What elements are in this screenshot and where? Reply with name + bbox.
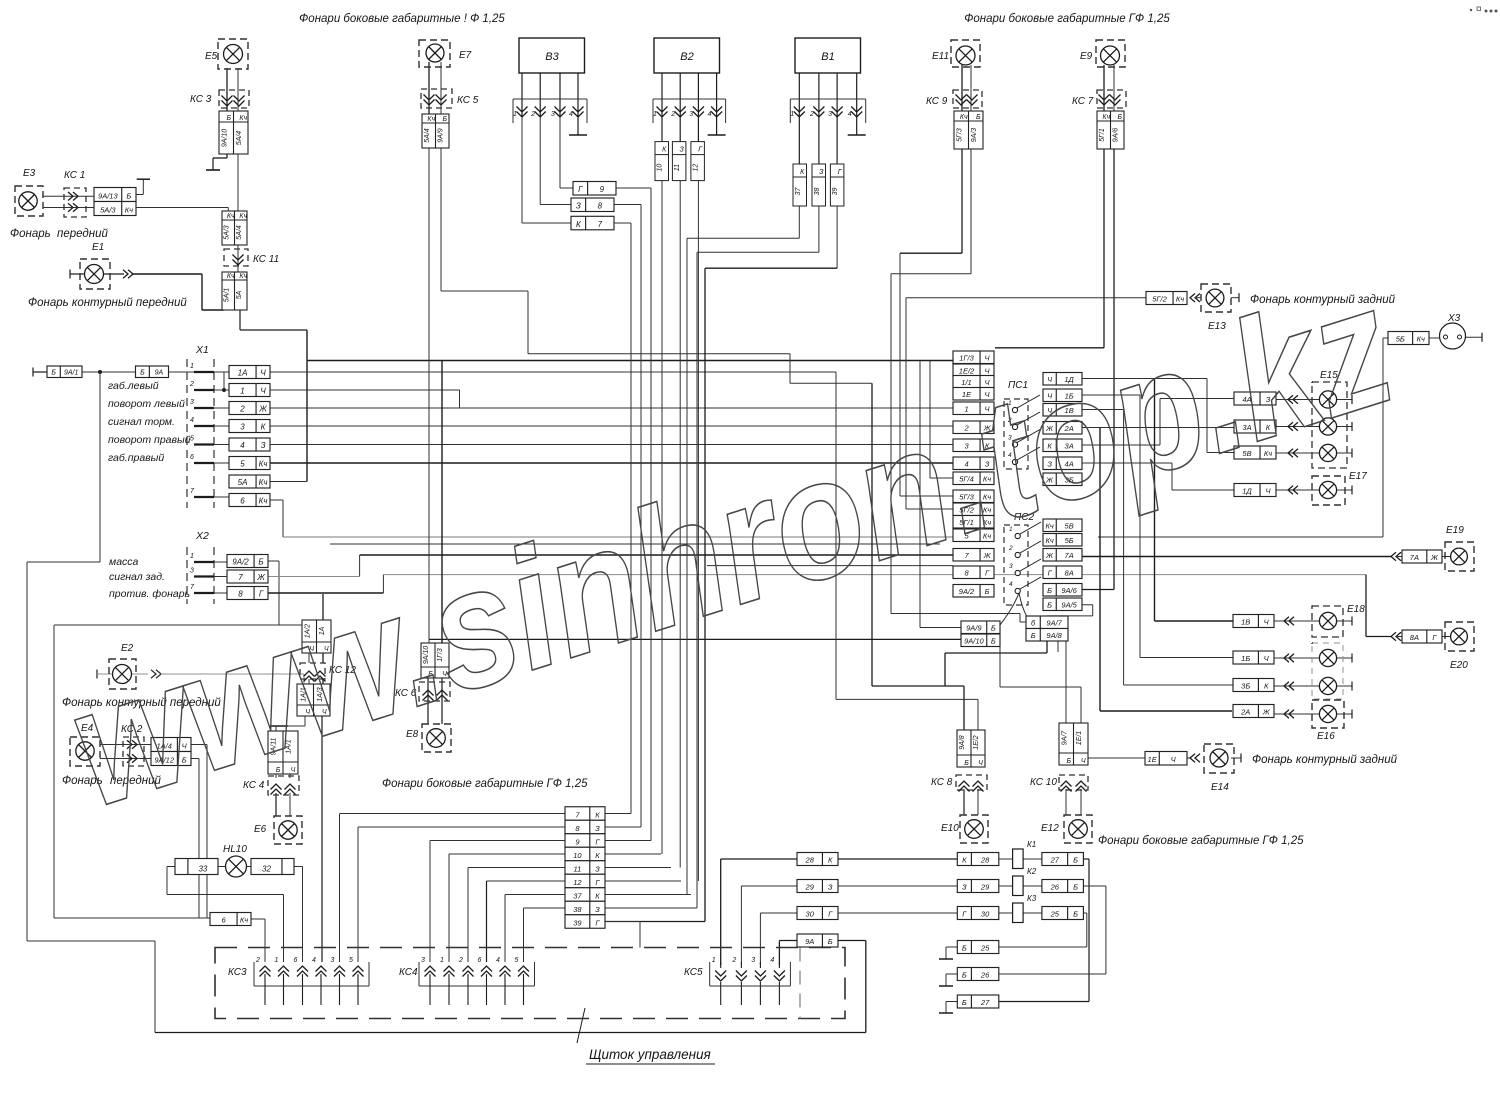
svg-text:9А/13: 9А/13 [98,192,118,201]
vlabel З-38 [812,164,826,206]
vlabel Г-12 [691,142,705,181]
svg-text:1Е/1: 1Е/1 [1076,731,1083,746]
svg-text:4: 4 [708,111,712,118]
connector KC7 [1097,90,1126,108]
svg-text:Ж: Ж [1430,553,1439,562]
svg-text:Б: Б [962,971,967,980]
svg-text:Б: Б [226,115,231,122]
wire: vertical 920 to 9A/9 box [919,361,921,628]
lamp HL10 (no box) [226,856,247,877]
label 6-Кч [210,913,251,926]
label PS-left 1Е/2-Ч [953,364,994,377]
lamp E19 [1445,542,1474,571]
svg-text:5А/3: 5А/3 [223,225,230,240]
switch block PS1 [1004,395,1040,469]
label PS-left 2-Ж [953,421,994,434]
svg-text:Б: Б [258,558,263,567]
svg-text:4: 4 [770,957,774,964]
lamp E11 [951,40,980,67]
block В1 [795,38,861,73]
svg-text:Б: Б [442,116,447,123]
svg-text:поворот правый: поворот правый [108,434,191,446]
svg-text:К2: К2 [1027,867,1037,876]
wire: X1 row 5A to vertical 307 [270,481,307,483]
svg-text:Ж: Ж [1045,551,1054,560]
svg-text:сигнал торм.: сигнал торм. [108,416,175,428]
X2 pin 1 stub [194,561,214,563]
svg-text:Кч: Кч [227,273,235,280]
svg-text:2: 2 [189,381,194,388]
label PS-left 7-Ж [953,549,994,562]
svg-text:7А: 7А [1065,551,1074,560]
svg-text:10: 10 [573,851,582,860]
label PS-right Ж-7А [1043,549,1082,562]
wire: E3 row1 to ground up [136,194,143,196]
svg-text:11: 11 [674,164,681,171]
svg-text:Щиток управления: Щиток управления [589,1047,711,1062]
svg-text:39: 39 [573,918,582,927]
svg-text:поворот левый: поворот левый [108,398,185,410]
label 25-Б [1042,907,1084,920]
svg-text:1: 1 [240,387,244,396]
label PS-right Кч-5В [1043,519,1082,532]
svg-text:З: З [680,147,685,154]
X1 pin 3 stub [194,407,214,409]
svg-text:Б: Б [1073,910,1078,919]
corner marks top right [1477,7,1481,11]
lamp right stub E18/E16 [1337,713,1352,715]
svg-text:1: 1 [190,363,194,370]
pair box E7/KC5 [422,114,449,148]
svg-text:Кч: Кч [239,115,247,122]
connector X1 dashed outline [186,359,188,508]
svg-text:Е10: Е10 [941,823,959,834]
label X1 1А-Ч [229,366,270,379]
svg-text:В1: В1 [821,51,834,63]
label PS-left 5Г/2-Кч [953,503,994,516]
wire: mid column left connections to KC3/KC4 pins [340,813,566,815]
connector KC5 top [421,89,452,108]
svg-text:КС 10: КС 10 [1030,777,1057,788]
wire: KC5 pin3 to 30G row [760,912,797,914]
control panel inner dashed jog [799,948,801,1019]
wire trunk: X1 row 5 to PS1 (dark) [270,462,953,464]
svg-text:38: 38 [573,905,582,914]
svg-text:Ч: Ч [978,760,983,767]
svg-text:Б: Б [962,944,967,953]
relay К2 [1013,867,1037,896]
svg-text:Е6: Е6 [254,824,267,835]
label mid-column 37-К [565,888,605,902]
label PS-right З-4А [1043,457,1082,470]
svg-text:1В: 1В [1241,618,1250,627]
label 9А/10-Б [961,634,1000,647]
pair box E5/KC3 [219,111,248,154]
label X1 6-Кч [229,494,270,507]
label Б-27 [957,995,999,1008]
svg-text:1А: 1А [238,369,248,378]
lamp E13 [1201,284,1231,312]
wire: E5 lamp to KC3 [226,68,228,111]
svg-text:25: 25 [1050,910,1060,919]
svg-text:К: К [1264,682,1269,691]
svg-text:4: 4 [312,957,316,964]
svg-text:7: 7 [598,220,603,229]
svg-text:1: 1 [513,111,517,118]
connector X2 dashed outline [186,547,188,604]
pair box KC4 chain [268,731,298,774]
label 1А/4-Ч E4 [151,738,191,752]
svg-text:КС5: КС5 [684,967,703,978]
wire: KC12 pair to connector [308,653,310,663]
svg-text:Кч: Кч [427,116,435,123]
lamp left wire [1274,657,1319,659]
svg-text:масса: масса [109,556,139,568]
wire: E13 stub [1231,297,1239,299]
svg-text:В2: В2 [680,51,693,63]
wire: KC5 pin1 to 28K row [721,858,797,860]
wire trunk: 565 line [707,565,953,567]
connector KC2 [123,737,144,766]
wire: E13 lamp row to vertical 906 [906,297,1146,299]
label E15 5В-Кч [1234,446,1276,459]
svg-text:З: З [595,824,600,833]
label PS-right Б-9А/6 [1043,584,1082,597]
svg-text:Кч: Кч [1102,114,1110,121]
B3 pin connectors [513,98,587,100]
wire: Ch-1B row to 1B lamp row [1082,394,1140,396]
wire: KC9 left col to PS row 5G/3 [961,149,963,253]
wire: B3 pin jogs to label boxes [521,116,523,223]
svg-text:КС3: КС3 [228,967,247,978]
svg-text:26: 26 [1050,883,1060,892]
label Б-9А/8 [1026,629,1068,642]
label 5А/3-Кч E3 [94,202,136,216]
svg-text:38: 38 [814,188,821,196]
svg-text:3: 3 [331,957,335,964]
wire: K-3A row jog to 4A box [1082,444,1160,446]
wire: KC10 left col feed [1065,616,1067,723]
svg-text:Фонарь: Фонарь [10,228,51,240]
svg-text:Фонари боковые габаритные ! Ф: Фонари боковые габаритные ! Ф 1,25 [299,13,505,25]
svg-text:К1: К1 [1027,840,1036,849]
svg-text:Б: Б [964,760,969,767]
lamp E17 [1312,476,1345,505]
svg-text:Ч: Ч [1081,758,1086,765]
lamp left wire with chevrons [1276,426,1319,428]
wire: 27B loop to B27 [1083,858,1089,860]
label X1 4-З [229,438,270,451]
label PS-left 5Г/1-Кч [953,516,994,529]
wire: 1V dark feed [1154,379,1156,622]
svg-text:5А/4: 5А/4 [236,225,243,240]
svg-text:3: 3 [240,423,245,432]
svg-text:Б: Б [991,637,996,646]
wire: 9A/5 hook to KC10 feed [1068,604,1093,606]
wire: K28 - K1 - 27B [999,858,1013,860]
label Б-9А/1 [47,366,82,378]
svg-text:Ж: Ж [258,405,267,414]
label PS-left 8-Г [953,566,994,579]
wire: KC10 right col to E14 label box [1088,757,1145,759]
label 7А-Ж E19 [1402,550,1442,563]
pair box KC8 chain [957,730,985,767]
svg-text:4: 4 [190,417,194,424]
svg-text:9А/2: 9А/2 [959,587,975,596]
X2 pin 7 stub [194,592,214,594]
lamp left wire [1274,620,1319,622]
wire: vertical 930 to 5G/4 row [929,361,931,479]
svg-text:9А/7: 9А/7 [1046,619,1062,628]
wire: X2 row 9A/2 to KC12 [268,560,279,562]
svg-text:Е14: Е14 [1211,782,1229,793]
label E15 1Д-Ч [1234,484,1276,497]
svg-text:Б: Б [1047,601,1052,610]
wire: KC5 pin4 to 9A-B row (dark) [779,940,797,942]
lamp left wire [1274,685,1319,687]
svg-text:9А/1: 9А/1 [64,370,79,377]
svg-text:2: 2 [458,957,463,964]
watermark www.sinhron.top.kz [49,250,1413,843]
svg-text:6: 6 [240,497,245,506]
wire: KC10 right col feed via 9A boxes [999,628,1001,688]
lamp right stub E18/E16 [1337,620,1352,622]
label mid-column 7-К [565,807,605,821]
wire: massa drop from node A [99,372,101,562]
wire: KC6 right col dark feed [441,361,443,644]
svg-text:Е1: Е1 [92,242,104,253]
pair box KC12 lower [297,684,330,716]
wire: E7 right wire jog [440,148,442,291]
lamp E3 [15,186,43,216]
label PS-right Кч-5Б [1043,534,1082,547]
svg-text:9А/10: 9А/10 [221,129,228,147]
pair box KC11 upper [222,211,248,245]
wire: KC9 right col long drop [970,149,972,274]
svg-text:Б: Б [828,937,833,946]
svg-text:9А/3: 9А/3 [971,128,978,143]
wire: KC7 left col to PS area [1103,149,1105,348]
svg-text:27: 27 [980,998,990,1007]
svg-text:КС 9: КС 9 [926,96,948,107]
svg-text:Е12: Е12 [1041,823,1059,834]
svg-text:Б: Б [1073,856,1078,865]
svg-text:9А/6: 9А/6 [1061,586,1077,595]
svg-text:Е11: Е11 [932,51,949,62]
wire: X2 row 8 dark to jog then long gray line to E20 [268,592,383,594]
svg-text:Е9: Е9 [1080,51,1093,62]
label 8А-Г E20 [1402,630,1442,643]
label mid-column 9-Г [565,834,605,848]
wire: E20 chevrons [1391,632,1396,641]
svg-text:9А: 9А [805,937,814,946]
svg-text:27: 27 [1050,856,1060,865]
svg-text:30: 30 [981,910,990,919]
svg-text:3: 3 [190,399,194,406]
wire: Z-4A row jog to 1D box [1082,462,1172,464]
label К-28 [957,853,999,866]
label PS-right К-3А [1043,439,1082,452]
svg-text:2: 2 [809,111,814,118]
label Г-9 [573,182,616,196]
label X1 2-Ж [229,402,270,415]
X1 pin 4 stub [194,425,214,427]
label б-9А/7 [1026,616,1068,629]
wire: Z29 - K2 - 26B [999,885,1013,887]
wire: E11 lamp to KC9 pair [961,65,963,111]
wire: HL10 left loop to KC3 pin1 [167,866,175,868]
svg-text:З: З [576,202,581,211]
wire: KC12 upper right col feed from dark trunk [322,594,324,620]
svg-text:39: 39 [832,188,839,196]
wire: E5 left to ground [226,154,228,158]
svg-text:37: 37 [573,891,582,900]
svg-text:1: 1 [440,957,444,964]
connector KC4 [268,776,299,795]
lamp E2 [109,659,136,689]
svg-text:5Б: 5Б [1396,335,1405,344]
svg-text:28: 28 [805,856,815,865]
svg-text:5А/1: 5А/1 [223,288,230,303]
label 30-Г [797,907,838,920]
wire: 7A dark line to E19 [1082,556,1391,558]
svg-text:К: К [828,856,833,865]
label PS-left 1Е-Ч [953,388,994,401]
connector KC10 [1059,775,1088,790]
lamp E5 [218,39,248,69]
wires below KC3 group [264,986,266,1005]
block В2 [654,38,720,73]
svg-text:Фонарь контурный передний: Фонарь контурный передний [28,297,187,309]
wire trunk: 9A/10 long line [429,638,961,640]
lamp E10 [960,815,988,843]
lamp E14 [1204,744,1234,773]
label 5Г/2-Кч E13 [1146,292,1187,305]
lamp right stub [1337,426,1352,428]
svg-text:Б: Б [140,370,145,377]
wire trunk: X1 row 1 with jog [270,389,460,391]
pair box E11/KC9 [954,111,983,149]
svg-text:8А: 8А [1065,569,1074,578]
svg-text:Х3: Х3 [1447,313,1461,324]
svg-text:Кч: Кч [125,206,133,215]
svg-text:5А/4: 5А/4 [236,131,243,146]
label 29-З [797,880,838,893]
lamp right stub E18/E16 [1337,685,1352,687]
svg-text:4: 4 [240,441,245,450]
svg-text:2: 2 [731,957,736,964]
wire: KC8 left col feed [963,686,965,730]
vlabel Г-39 [830,164,844,206]
svg-text:1Г/3: 1Г/3 [959,354,974,363]
svg-text:Фонари боковые габаритные ГФ 1: Фонари боковые габаритные ГФ 1,25 [964,13,1170,25]
vlabel К-10 [655,142,669,181]
label X2 8-Г [227,587,268,600]
socket X3 [1440,323,1466,349]
relay К3 [1013,894,1037,923]
wire: E7 lamp to KC5 pair [428,62,430,114]
X1 pin 6 stub [194,462,214,464]
label E15 4А-З [1234,392,1276,405]
svg-text:Ч: Ч [260,369,266,378]
wire: E19 chevrons [1391,552,1396,561]
wire: G30 - K3 - 25B [999,912,1013,914]
X1 pin 5 stub [194,443,214,445]
svg-text:5: 5 [349,957,353,964]
svg-text:КС4: КС4 [399,967,418,978]
label 27-Б [1042,853,1084,866]
wire: 9A/8 drop and zigzag (dark) [1046,640,1048,653]
wire: X1 pin2 hook to 1A row [223,372,225,390]
svg-text:33: 33 [198,865,207,874]
wire: E3 row2 to KC11 column [136,207,228,209]
lamp right stub [1337,489,1352,491]
label mid-column 10-К [565,847,605,861]
lamp E7 [419,40,450,67]
ground under B1 pin4 [856,116,858,135]
lamp E12 [1064,815,1092,843]
svg-text:З: З [595,905,600,914]
lamp E4 [70,737,100,766]
svg-text:29: 29 [980,883,990,892]
label E18 1В-Ч [1233,615,1274,628]
callout line to panel label [577,1008,585,1043]
wire: KC10 to E12 lamp [1065,789,1067,815]
svg-text:12: 12 [573,878,582,887]
lamp E18-3 [1312,643,1337,695]
svg-text:6: 6 [190,454,194,461]
wire trunk: 544 line [330,543,940,545]
svg-text:габ.левый: габ.левый [108,380,159,392]
svg-text:габ.правый: габ.правый [108,452,164,464]
wire: E14 chevrons [1190,754,1195,763]
svg-text:6: 6 [294,957,298,964]
svg-text:3: 3 [689,111,693,118]
wire: Zh-2A row to 3A box and 2A drop (dark) [1082,427,1234,429]
connector KC6 [419,682,450,701]
svg-text:5: 5 [515,957,519,964]
svg-text:Ч: Ч [260,387,266,396]
PS2 pin4 curves to 9A boxes [1000,593,1019,625]
label PS-right Ч-1В [1043,404,1082,417]
lamp left wire with chevrons [1276,452,1319,454]
lamp left wire with chevrons [1276,399,1319,401]
svg-text:КС 3: КС 3 [190,94,212,105]
ground under B3 pin4 [577,116,579,135]
label PS-right Ч-1Б [1043,389,1082,402]
wire: 9A/7 bottom exit down-left [1057,640,1059,652]
svg-text:4: 4 [848,111,852,118]
wire: row39 right exit [605,921,640,923]
wire: B2 pins down [661,73,663,142]
svg-text:Г: Г [578,185,583,194]
svg-text:2: 2 [670,111,675,118]
label E18 1Б-Ч [1233,651,1274,664]
svg-text:Б: Б [962,998,967,1007]
label X2 9А/2-Б [227,555,268,568]
label E15 3А-К [1234,420,1276,433]
wire: 28K to K28 [838,858,957,860]
svg-text:5: 5 [190,436,194,443]
svg-text:З: З [261,441,266,450]
wire: 6-Kch box to KC3 pin2 [250,918,265,920]
svg-text:Б: Б [985,587,990,596]
label mid-column 11-З [565,861,605,875]
label PS-right Ж-3Б [1043,473,1082,486]
label PS-left 1Г/3-Ч [953,351,994,364]
svg-text:5А/3: 5А/3 [100,206,116,215]
svg-text:3: 3 [751,957,755,964]
